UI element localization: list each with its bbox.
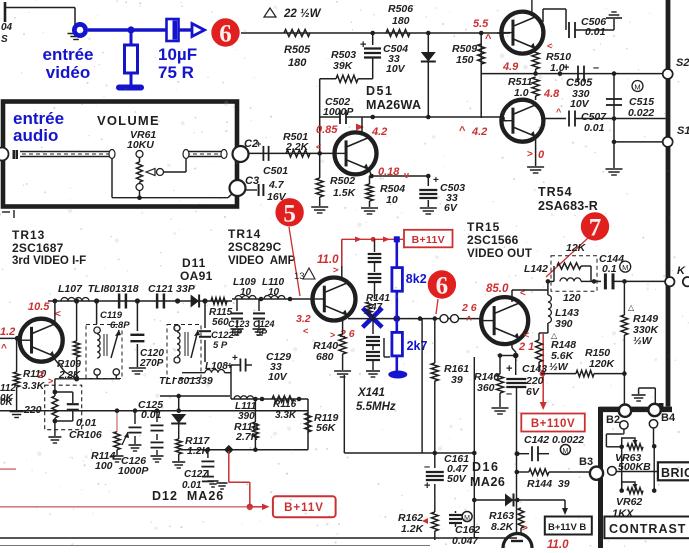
label C126 1000P	[118, 455, 149, 477]
red 0.18	[378, 166, 409, 180]
svg-text:B3: B3	[579, 456, 593, 468]
svg-text:½W: ½W	[549, 361, 569, 373]
sym M1	[632, 81, 643, 92]
conn B3 small	[608, 467, 617, 476]
coil L107	[61, 298, 89, 301]
label 220	[23, 404, 42, 416]
svg-text:39: 39	[451, 374, 463, 386]
label L143 390	[551, 307, 579, 340]
svg-text:120: 120	[563, 292, 581, 304]
svg-text:0.85: 0.85	[316, 124, 338, 136]
svg-text:B+11V B: B+11V B	[548, 522, 586, 533]
wire collector bus	[362, 115, 481, 120]
xfmr T1 box	[86, 325, 122, 379]
svg-text:R116: R116	[273, 399, 297, 410]
svg-text:MA26: MA26	[470, 475, 505, 489]
label X141	[356, 387, 396, 413]
svg-text:v: v	[404, 170, 409, 180]
bus right	[666, 0, 671, 407]
label B4	[661, 412, 676, 424]
svg-text:0K: 0K	[0, 397, 14, 408]
label 13 triangle	[294, 268, 315, 282]
coil L111	[234, 396, 254, 399]
dashed box L142	[551, 256, 597, 291]
svg-text:M: M	[622, 263, 628, 272]
audio cable right	[183, 150, 227, 159]
svg-text:5.5: 5.5	[473, 18, 489, 30]
blue capacitor 10uF	[167, 19, 194, 41]
wire bottom rail	[0, 410, 308, 412]
sym M3	[560, 445, 570, 456]
bus corner top	[599, 403, 672, 409]
svg-text:2SC829C: 2SC829C	[228, 240, 282, 254]
label C129 33 10V	[266, 351, 291, 383]
coil L109	[235, 296, 256, 300]
resistor R161	[431, 319, 438, 468]
resistor R506	[386, 29, 410, 36]
wire pot wiper	[163, 158, 186, 172]
svg-text:R109: R109	[57, 359, 81, 370]
ground C515	[606, 169, 623, 175]
stub below box	[2, 210, 14, 218]
svg-text:audio: audio	[13, 126, 58, 145]
svg-text:85.0: 85.0	[486, 283, 509, 295]
wire base TR53	[497, 32, 510, 34]
label R148 56K	[549, 339, 576, 373]
svg-text:^: ^	[485, 33, 492, 45]
svg-text:5: 5	[283, 201, 296, 228]
svg-text:4.2: 4.2	[471, 126, 487, 138]
svg-text:½W: ½W	[633, 335, 653, 347]
resistor R117	[172, 439, 185, 468]
svg-text:6: 6	[219, 21, 232, 48]
svg-text:3.3K: 3.3K	[275, 410, 297, 421]
red wire long	[0, 506, 250, 508]
resistor R510	[532, 48, 539, 74]
svg-text:B4: B4	[661, 412, 676, 424]
svg-text:+: +	[256, 139, 261, 149]
label entree audio	[13, 109, 64, 145]
wire 378 row	[55, 375, 120, 379]
label C501 4.7 16V	[263, 165, 288, 203]
transistor TR54	[501, 100, 543, 142]
xfmr T2 coil	[174, 325, 200, 363]
cap C507	[543, 111, 666, 127]
svg-text:MA26WA: MA26WA	[366, 98, 421, 112]
cap C515	[606, 99, 622, 105]
svg-text:56K: 56K	[316, 422, 337, 434]
svg-text:1.5K: 1.5K	[333, 187, 357, 199]
label C119 68P	[100, 310, 130, 331]
svg-text:6.8P: 6.8P	[110, 320, 130, 331]
svg-text:TR15: TR15	[467, 220, 500, 234]
label R114 100	[91, 432, 129, 472]
resistor R502	[311, 153, 328, 213]
svg-text:2 6: 2 6	[461, 302, 477, 314]
red 4.2 a	[371, 126, 387, 138]
label TLI 801339	[159, 375, 213, 387]
red wire to B+11V	[342, 237, 403, 267]
svg-text:10: 10	[386, 194, 398, 206]
svg-text:R505: R505	[284, 44, 311, 56]
svg-text:>: >	[527, 149, 533, 160]
label VR61 10KU	[127, 129, 156, 151]
label R503 39K	[331, 49, 356, 72]
cap C124	[253, 299, 266, 335]
svg-text:4.2: 4.2	[371, 126, 387, 138]
svg-text:8.2K: 8.2K	[491, 521, 515, 533]
label R509 150	[452, 43, 477, 66]
label R502 1.5K	[330, 175, 357, 199]
svg-text:180: 180	[392, 15, 410, 27]
pot VR62	[622, 482, 643, 494]
label R144 39	[527, 478, 570, 490]
transistor TR16 partial	[503, 534, 532, 549]
label C506 0.01	[581, 16, 606, 38]
label R141 47	[366, 293, 390, 313]
svg-text:X141: X141	[357, 387, 385, 399]
wire mid verticals	[344, 319, 474, 538]
label VR63 500KB	[615, 452, 651, 473]
svg-text:entrée: entrée	[42, 45, 93, 64]
wire VR63 right	[652, 428, 657, 449]
junction L110	[259, 297, 293, 302]
label 12K	[566, 242, 587, 254]
wire emitter TR15	[498, 341, 519, 358]
label VOLUME	[97, 113, 160, 128]
label R117 1.2K	[185, 435, 211, 457]
cap C505	[563, 62, 599, 82]
transistor TR15	[481, 297, 528, 344]
resistor R141	[366, 302, 372, 316]
wire R503 down	[319, 79, 321, 154]
red box B+11V top	[404, 230, 453, 248]
svg-text:vidéo: vidéo	[46, 63, 90, 82]
label entree video	[42, 45, 93, 82]
resistor R116	[272, 396, 294, 402]
blue node entree video	[72, 22, 88, 38]
svg-text:<: <	[316, 142, 321, 152]
svg-text:1.0: 1.0	[514, 87, 529, 99]
ground TR54	[527, 167, 544, 173]
svg-text:S: S	[1, 34, 8, 45]
blue resistor 2k7	[392, 332, 403, 356]
svg-text:D11: D11	[182, 256, 206, 270]
wire IF rail2	[232, 298, 313, 300]
red wire to B110V	[540, 334, 547, 410]
svg-text:10.5: 10.5	[28, 301, 50, 313]
blue label 2k7	[407, 339, 428, 353]
svg-text:△: △	[628, 303, 635, 312]
label B3	[579, 456, 593, 468]
red 4.9	[502, 41, 552, 73]
resistor R163	[518, 508, 524, 534]
audio cable left	[14, 150, 115, 160]
wire base TR52	[248, 151, 334, 156]
bus below B3	[598, 478, 603, 548]
label 04 / S (cut)	[1, 22, 13, 45]
svg-text:1.2K: 1.2K	[401, 523, 425, 535]
label C127 0.01	[182, 469, 228, 491]
resistor R109	[73, 301, 79, 381]
svg-text:360: 360	[477, 382, 495, 394]
audio connector left	[0, 148, 9, 161]
svg-text:C3: C3	[245, 175, 259, 187]
svg-text:4.7: 4.7	[268, 179, 285, 191]
red 4.2 b	[459, 125, 487, 138]
svg-text:S2: S2	[676, 57, 689, 69]
red circled 7	[546, 212, 609, 277]
blue ground	[116, 85, 144, 91]
blue resistor 8k2	[392, 268, 403, 292]
label TR15 block	[467, 220, 532, 260]
svg-text:TLI 801339: TLI 801339	[159, 375, 213, 387]
svg-text:12K: 12K	[566, 242, 587, 254]
red arrow B11V	[253, 504, 270, 510]
wire rail to TR15	[440, 315, 481, 323]
wire IF rail	[48, 300, 232, 302]
label R162 1.2K	[398, 512, 428, 535]
svg-text:47: 47	[370, 302, 383, 313]
transistor TR53	[501, 12, 543, 54]
pot VR63	[622, 438, 643, 450]
label 0K	[0, 397, 14, 408]
resistor R118	[252, 397, 258, 452]
conn S2	[663, 57, 689, 79]
svg-text:TR54: TR54	[538, 185, 573, 199]
box CONTRAST	[604, 517, 689, 539]
wire riser x308	[307, 399, 309, 450]
coil L110	[264, 296, 285, 300]
cap C121	[119, 294, 164, 309]
svg-text:150: 150	[456, 54, 474, 66]
svg-text:R144 39: R144 39	[527, 478, 570, 490]
sym M4	[462, 512, 472, 523]
label L109 L110	[233, 277, 284, 298]
label R510 1.0	[546, 51, 571, 74]
svg-text:M: M	[464, 515, 470, 522]
svg-text:<: <	[524, 330, 529, 340]
red circled 6 top	[211, 18, 239, 47]
svg-text:1.2: 1.2	[0, 326, 15, 338]
cap C123	[231, 299, 244, 335]
conn S1	[663, 125, 689, 147]
label R116 33K	[273, 399, 297, 421]
svg-text:7: 7	[589, 215, 602, 242]
ground CR106	[48, 437, 61, 443]
svg-text:>: >	[522, 523, 528, 534]
svg-text:22 ½W: 22 ½W	[283, 8, 322, 20]
svg-text:5P: 5P	[256, 328, 268, 338]
svg-text:2 1: 2 1	[518, 341, 534, 353]
svg-text:+: +	[424, 480, 430, 492]
wire top-left input stub	[4, 2, 75, 22]
svg-text:–: –	[593, 62, 599, 74]
label C504 33 10V	[383, 43, 408, 75]
svg-text:75 R: 75 R	[158, 63, 194, 82]
wire L142 to C144	[592, 279, 601, 284]
label R140 680	[313, 340, 338, 363]
label 112 0K	[0, 383, 16, 404]
label R150 120K	[585, 347, 616, 370]
wire VR62 links	[619, 446, 656, 493]
label C503 33 6V	[440, 182, 465, 214]
red tap R117 rail	[229, 451, 250, 507]
red 11.0 bottom	[547, 539, 569, 551]
svg-text:50V: 50V	[447, 473, 467, 485]
svg-text:^: ^	[459, 125, 466, 137]
resistor R114	[111, 408, 124, 462]
wire d12 top	[160, 395, 230, 397]
svg-text:100: 100	[95, 460, 113, 472]
cap C503	[419, 175, 439, 214]
ground G501	[68, 8, 85, 40]
svg-text:4.8: 4.8	[543, 88, 560, 100]
wire video out rail	[348, 316, 440, 321]
svg-text:4.9: 4.9	[502, 61, 519, 73]
svg-text:CR106: CR106	[69, 429, 102, 441]
red 1.2	[0, 326, 15, 354]
svg-text:R502: R502	[330, 175, 355, 187]
dashed box CR106	[45, 385, 82, 430]
wire emitter TR52	[369, 168, 431, 178]
blue junction	[127, 26, 134, 33]
res CR106	[52, 379, 79, 436]
resistor R140	[334, 319, 351, 377]
svg-text:10V: 10V	[570, 98, 590, 110]
coil L108	[182, 369, 231, 372]
label R119 56K	[314, 412, 338, 434]
label C143 220 6V	[522, 363, 547, 398]
svg-text:0.18: 0.18	[378, 166, 400, 178]
svg-text:3.3K: 3.3K	[22, 380, 46, 392]
diode D51a	[421, 33, 436, 118]
svg-text:10µF: 10µF	[158, 45, 197, 64]
wire bottom long2	[0, 545, 430, 547]
label C123 5P	[228, 319, 250, 338]
svg-text:680: 680	[316, 351, 334, 363]
wire pot bottom	[112, 158, 236, 200]
svg-text:+: +	[563, 62, 569, 74]
svg-text:2SC1687: 2SC1687	[12, 241, 64, 255]
resistor R144	[517, 469, 590, 475]
label D16 MA26	[470, 460, 505, 489]
svg-text:C501: C501	[263, 165, 288, 177]
cap C502	[320, 110, 362, 124]
transistor TR52	[335, 117, 377, 174]
wire top rail	[241, 32, 510, 34]
ground C506	[606, 12, 622, 18]
label TR54	[538, 185, 598, 213]
wire R148 R150 node	[541, 373, 545, 375]
cap C129	[231, 353, 252, 372]
resistor R146	[492, 356, 509, 415]
svg-text:M: M	[562, 448, 568, 455]
label R149 330K	[628, 303, 660, 347]
blue label 8k2	[406, 272, 427, 286]
svg-text:D12 MA26: D12 MA26	[152, 489, 224, 503]
svg-text:5.5MHz: 5.5MHz	[356, 401, 396, 413]
red 3.2	[296, 313, 311, 336]
svg-text:VIDEO OUT: VIDEO OUT	[467, 248, 532, 260]
resistor R162	[431, 484, 438, 540]
red 10.5	[28, 301, 61, 320]
resistor R509	[478, 33, 485, 118]
svg-text:04: 04	[1, 22, 13, 33]
label C121 33P	[148, 283, 196, 295]
svg-text:6V: 6V	[444, 202, 458, 214]
bus left corner	[598, 407, 603, 470]
red box B+11V bottom	[273, 496, 336, 517]
label 0.01 CR106	[69, 417, 102, 441]
diode D12a	[171, 394, 186, 439]
label R110 3.3K	[22, 369, 53, 392]
label C125 0.01	[138, 399, 163, 421]
svg-text:K: K	[677, 265, 686, 277]
wire emitter rail	[481, 71, 665, 76]
cap C125	[151, 408, 164, 462]
svg-text:5P: 5P	[231, 328, 243, 338]
svg-text:560: 560	[212, 317, 229, 328]
svg-text:M: M	[634, 83, 640, 92]
label R161 39	[444, 363, 469, 386]
svg-text:>: >	[48, 376, 53, 386]
wire base TR54	[481, 117, 507, 121]
svg-text:0.022: 0.022	[628, 107, 654, 119]
cap C119	[96, 301, 98, 324]
diode D16a	[472, 494, 565, 507]
red 2.1	[518, 330, 534, 353]
svg-text:–: –	[506, 388, 512, 400]
junctions IF	[74, 298, 208, 303]
blue wire mid	[393, 291, 400, 332]
svg-text:VR62: VR62	[616, 496, 642, 508]
svg-text:B2: B2	[606, 414, 620, 426]
svg-text:B+110V: B+110V	[531, 418, 575, 430]
wire collector TR13	[53, 299, 58, 322]
cap C120	[129, 301, 146, 374]
cap C127	[201, 447, 218, 487]
label D11 OA91	[180, 256, 213, 283]
svg-text:VIDEO AMP: VIDEO AMP	[228, 255, 296, 267]
svg-text:^: ^	[1, 343, 7, 354]
svg-text:2SC1566: 2SC1566	[467, 233, 519, 247]
label C122 5P	[211, 330, 234, 351]
cap C143	[506, 356, 526, 449]
diode D11	[191, 295, 200, 308]
svg-text:270P: 270P	[139, 358, 164, 369]
label L111 390	[235, 401, 257, 422]
wire B3 to BRIG	[616, 471, 658, 473]
wire collector TR15	[512, 279, 550, 302]
conn B4 small	[649, 420, 657, 428]
resistor R119	[305, 413, 311, 432]
conn B2 small	[620, 421, 628, 429]
red wire stub	[0, 468, 16, 470]
coil L143	[548, 290, 552, 333]
svg-text:2.2K: 2.2K	[285, 141, 310, 153]
svg-text:11.0: 11.0	[547, 539, 569, 548]
wire left col	[230, 365, 232, 399]
resistor R511	[532, 77, 539, 100]
label R505 180	[284, 44, 311, 69]
wire r117 rail	[181, 445, 308, 455]
resistor R115	[211, 298, 227, 305]
label C515 0.022	[628, 96, 654, 119]
blue wire bottom	[395, 356, 398, 372]
wire VR63 left	[606, 429, 624, 449]
wire L111 R116	[231, 397, 308, 402]
